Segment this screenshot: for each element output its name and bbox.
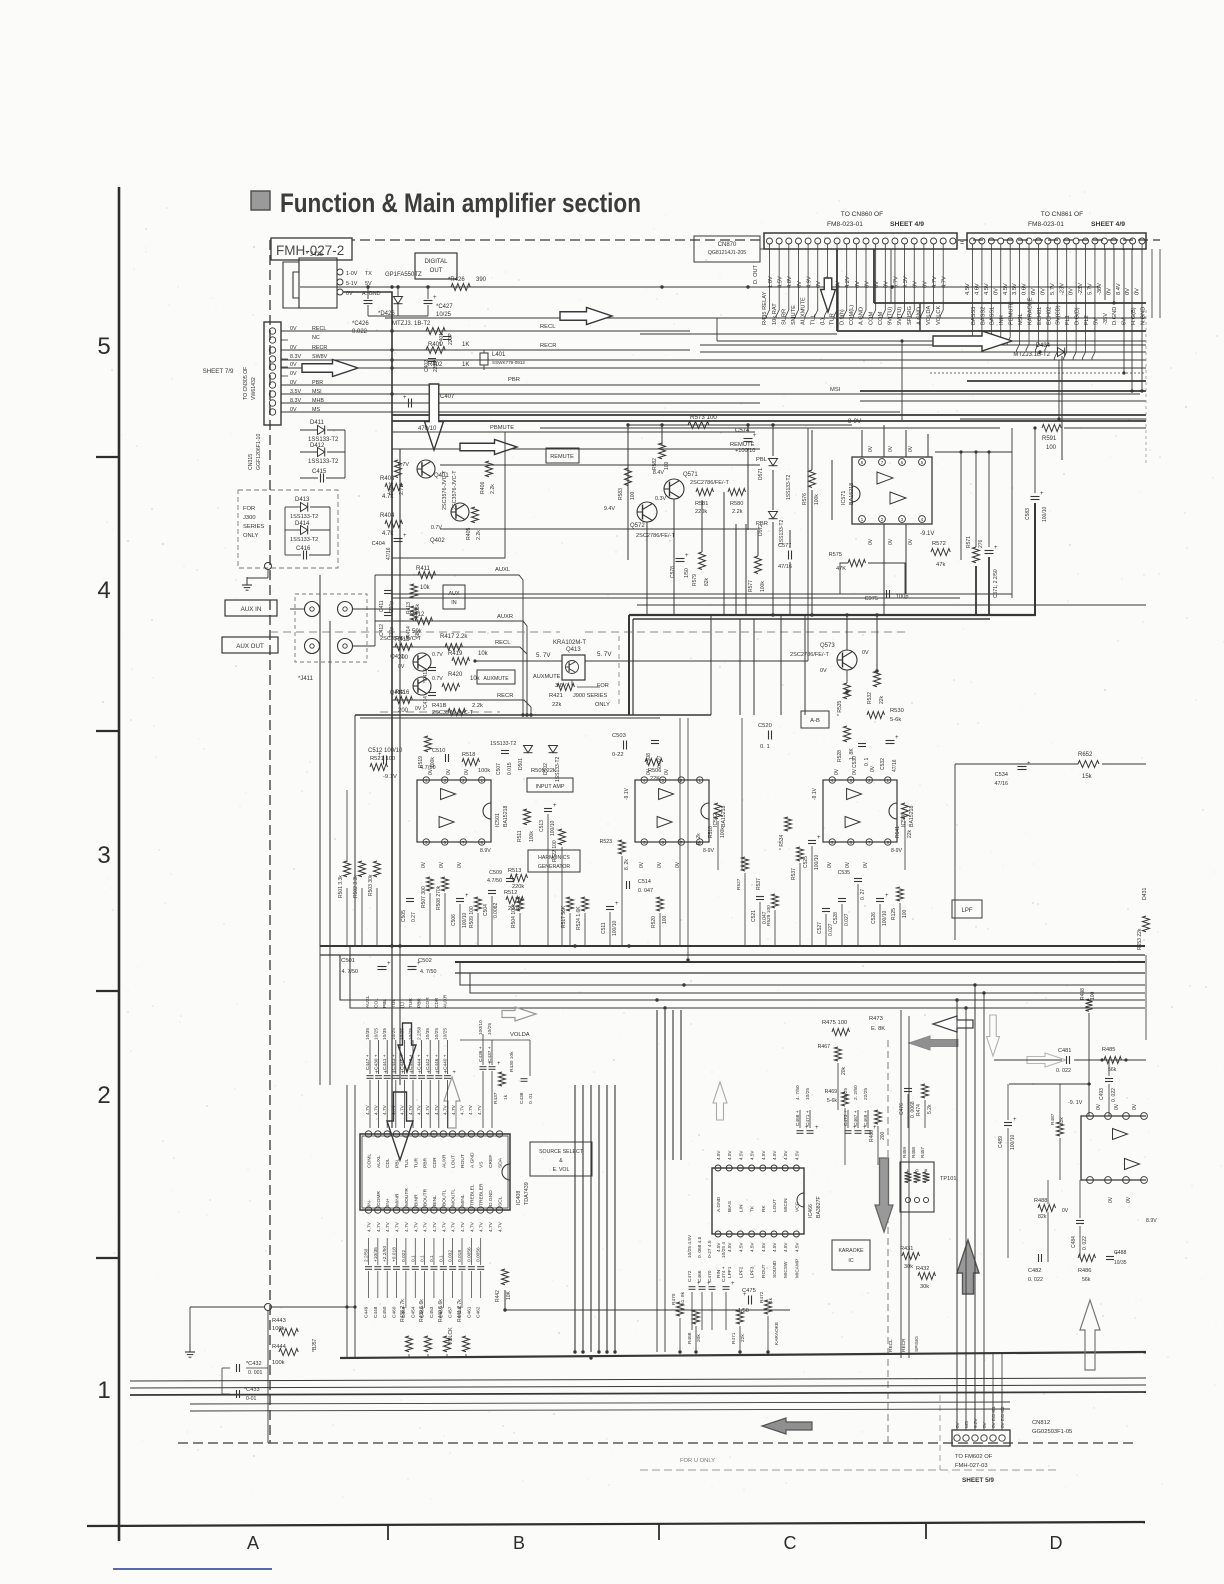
svg-text:+100/10: +100/10 <box>735 448 755 454</box>
svg-text:R511: R511 <box>517 830 523 842</box>
svg-text:-9.1V: -9.1V <box>920 531 934 537</box>
svg-text:C512 100/10: C512 100/10 <box>368 748 403 754</box>
wire trunk x392 lower <box>391 946 393 1128</box>
resistor R417 <box>445 644 463 651</box>
svg-text:9V(TU): 9V(TU) <box>897 307 903 325</box>
svg-text:0V: 0V <box>464 768 470 775</box>
arrow down C407 <box>425 384 444 450</box>
transistor Q401 <box>417 460 435 478</box>
svg-text:1SS133-T2: 1SS133-T2 <box>290 514 318 520</box>
resistor R443 <box>279 1329 298 1336</box>
svg-text:0V: 0V <box>863 861 869 868</box>
capacitor C512 <box>383 756 385 765</box>
svg-text:R440 5.6k: R440 5.6k <box>438 1299 444 1322</box>
capacitor C527 <box>822 908 830 910</box>
svg-text:RECR: RECR <box>540 343 556 349</box>
svg-text:IC526: IC526 <box>901 813 907 827</box>
capacitor C458 <box>459 1266 466 1268</box>
svg-text:D: D <box>1050 1533 1063 1553</box>
dashed rail y632 <box>270 631 560 633</box>
for J300 series dashed box <box>238 490 338 568</box>
svg-text:0. 022: 0. 022 <box>1056 1068 1071 1074</box>
svg-text:4: 4 <box>97 577 110 604</box>
svg-text:5: 5 <box>97 333 110 360</box>
svg-text:4.7V: 4.7V <box>488 1221 494 1232</box>
svg-text:C450: C450 <box>382 1306 388 1318</box>
svg-text:C504: C504 <box>483 904 489 916</box>
svg-text:RECL: RECL <box>312 326 326 332</box>
svg-text:0.032: 0.032 <box>448 1250 454 1262</box>
J426 pin 3 <box>337 289 343 295</box>
svg-text:47K: 47K <box>836 566 846 572</box>
svg-text:100k: 100k <box>272 1326 285 1332</box>
resistor R414 <box>411 606 418 620</box>
IC502 opamp A <box>659 789 674 800</box>
resistor R524 <box>582 897 589 911</box>
svg-text:COL: COL <box>374 998 380 1008</box>
connector CN861 block <box>967 233 1146 249</box>
capacitor C462 <box>477 1266 484 1268</box>
wire mid horizontals <box>320 945 1145 947</box>
capacitor C475 <box>748 1296 750 1305</box>
wire y373 dotted <box>930 372 1146 374</box>
svg-text:0V: 0V <box>870 765 876 772</box>
IC571 opamp B <box>890 492 906 504</box>
svg-text:PBMUTE: PBMUTE <box>1009 301 1015 325</box>
svg-text:FM8-023-01: FM8-023-01 <box>1028 221 1064 228</box>
IC501 pin 1 <box>479 777 485 783</box>
capacitor C447 <box>367 1075 374 1077</box>
capacitor C583 <box>1031 496 1040 498</box>
svg-text:MICAMP: MICAMP <box>794 1259 800 1278</box>
svg-text:0V: 0V <box>888 538 894 545</box>
svg-text:1K: 1K <box>462 362 469 368</box>
capacitor C532 <box>886 740 895 742</box>
svg-text:MSI: MSI <box>830 387 841 393</box>
resistor R506 <box>645 759 663 766</box>
svg-text:AUX IN: AUX IN <box>241 606 262 613</box>
CN861 pin 15 <box>1101 238 1107 244</box>
svg-text:1K: 1K <box>462 342 469 348</box>
svg-text:R523: R523 <box>600 839 613 845</box>
label LPF box <box>952 900 982 918</box>
svg-text:C466: C466 <box>697 1270 703 1282</box>
svg-text:J900 SERIES: J900 SERIES <box>573 693 607 699</box>
IC408 bottom pin 28 <box>449 1207 455 1213</box>
svg-text:+10/35: +10/35 <box>373 1247 379 1262</box>
CN861 pin 12 <box>1073 238 1079 244</box>
capacitor C521 <box>756 896 764 898</box>
svg-text:4.7V: 4.7V <box>374 1104 380 1115</box>
wire MS <box>281 411 560 413</box>
svg-text:0.3V: 0.3V <box>655 496 666 502</box>
svg-text:C430 +: C430 + <box>374 1054 380 1070</box>
wire y452 <box>935 451 1012 453</box>
resistor R507 <box>427 877 434 891</box>
svg-text:2. 2/50: 2. 2/50 <box>853 1085 859 1100</box>
svg-text:1-0V: 1-0V <box>346 271 358 277</box>
svg-text:100k: 100k <box>814 494 820 505</box>
svg-text:4.7V: 4.7V <box>376 1221 382 1232</box>
svg-text:CN870: CN870 <box>718 242 737 248</box>
IC408 top pin 8 <box>459 1131 465 1137</box>
svg-text:5-1V: 5-1V <box>346 281 358 287</box>
svg-text:-9. 1V: -9. 1V <box>1068 1100 1083 1106</box>
svg-text:R125: R125 <box>891 908 897 920</box>
resistor R501 <box>344 861 351 877</box>
resistor R511 <box>524 809 531 825</box>
transistor Q571 <box>664 479 684 499</box>
svg-text:10/25: 10/25 <box>408 1028 414 1040</box>
resistor R653 <box>1143 916 1150 932</box>
CN860 pin 15 <box>902 238 908 244</box>
ground sym left <box>267 570 269 578</box>
capacitor C528 <box>838 898 846 900</box>
svg-text:R458: R458 <box>911 1147 916 1158</box>
svg-text:&: & <box>559 1158 563 1164</box>
svg-text:8.3V: 8.3V <box>290 354 301 360</box>
svg-text:4.7V: 4.7V <box>942 276 948 288</box>
IC571 pin 6 <box>899 459 906 466</box>
svg-text:ONLY: ONLY <box>595 702 610 708</box>
left zone border axis <box>118 187 121 1541</box>
svg-text:5.7V: 5.7V <box>1088 283 1094 295</box>
svg-text:100k: 100k <box>272 1360 285 1366</box>
right opamp pin bottom 6 <box>1105 1177 1112 1184</box>
svg-text:CDR: CDR <box>434 997 440 1008</box>
svg-text:5. 7V: 5. 7V <box>536 652 551 659</box>
svg-text:+: + <box>553 803 557 809</box>
svg-text:4.7V: 4.7V <box>395 1221 401 1232</box>
svg-text:-9.1V: -9.1V <box>812 787 818 800</box>
CN315 pin 5 <box>269 364 275 370</box>
svg-text:C461: C461 <box>466 1306 472 1318</box>
wire RECL mid <box>392 647 527 715</box>
svg-text:CN812: CN812 <box>1032 1420 1050 1426</box>
svg-text:QG81214J1-205: QG81214J1-205 <box>708 250 746 256</box>
svg-text:KRA102M-T: KRA102M-T <box>553 640 586 646</box>
svg-text:4.2V: 4.2V <box>845 276 851 288</box>
IC408 top pin 11 <box>431 1131 437 1137</box>
svg-text:C441 +: C441 + <box>382 1054 388 1070</box>
svg-text:FOR: FOR <box>243 506 255 512</box>
svg-text:G: G <box>915 1168 918 1173</box>
capacitor C571 <box>985 550 994 552</box>
svg-text:SERIES: SERIES <box>243 524 264 530</box>
TP101 block <box>900 1162 934 1212</box>
svg-text:0V: 0V <box>646 768 652 775</box>
wires diode column <box>344 430 346 478</box>
IC526 pin 4 <box>829 777 835 783</box>
svg-text:R485: R485 <box>1102 1047 1115 1053</box>
svg-text:4.7V: 4.7V <box>468 1104 474 1115</box>
svg-text:BOUTL: BOUTL <box>441 1189 447 1206</box>
arrow white left <box>933 1016 973 1032</box>
svg-text:10/35: 10/35 <box>1114 1260 1127 1266</box>
svg-text:R541: R541 <box>895 826 901 838</box>
svg-text:D414: D414 <box>295 521 310 527</box>
svg-text:+0.018: +0.018 <box>392 1247 398 1262</box>
connector CN315 strip <box>264 322 281 425</box>
svg-text:AUXR: AUXR <box>442 994 448 1008</box>
svg-text:C457: C457 <box>448 1306 454 1318</box>
IC501 pin 7 <box>460 839 466 845</box>
svg-text:* J426: * J426 <box>306 252 324 258</box>
svg-text:PBL: PBL <box>756 457 768 463</box>
wire lower verticals to bus <box>408 1354 410 1358</box>
for-U-only dashed bottom line <box>640 1469 1060 1471</box>
IC526 pin 1 <box>885 777 891 783</box>
svg-text:N.GND: N.GND <box>1140 307 1146 325</box>
svg-text:R575: R575 <box>829 552 842 558</box>
resistor R503 <box>374 861 381 877</box>
svg-text:100: 100 <box>1046 445 1057 451</box>
svg-text:ONLY: ONLY <box>243 533 258 539</box>
svg-text:VOLCK: VOLCK <box>448 1327 454 1345</box>
svg-text:4.5V: 4.5V <box>750 1242 755 1252</box>
svg-text:IC571: IC571 <box>841 491 847 505</box>
IC408 bottom pin 19 <box>365 1207 371 1213</box>
IC526 pin 3 <box>848 777 854 783</box>
svg-text:TP101: TP101 <box>940 1176 956 1182</box>
bottom zone border axis <box>87 1522 1145 1526</box>
svg-text:C505: C505 <box>401 910 407 922</box>
svg-text:C493: C493 <box>1099 1088 1105 1100</box>
transistor Q402 <box>451 503 469 521</box>
svg-text:0V: 0V <box>1132 1103 1138 1110</box>
svg-text:4.5V: 4.5V <box>772 1150 777 1160</box>
svg-text:0. 27: 0. 27 <box>860 889 866 900</box>
svg-text:BASS3: BASS3 <box>971 307 977 325</box>
svg-text:4.7V: 4.7V <box>382 1104 388 1115</box>
wire bus y415 heavy <box>392 414 1146 416</box>
IC408 bottom pin 32 <box>487 1207 493 1213</box>
svg-text:8.9V: 8.9V <box>480 848 491 854</box>
svg-text:R576: R576 <box>802 493 808 505</box>
capacitor C445 <box>401 1075 408 1077</box>
resistor R486 <box>1078 1255 1096 1262</box>
svg-text:R457: R457 <box>920 1147 925 1158</box>
IC408 top pin 5 <box>487 1131 493 1137</box>
trunk bundle top corners <box>574 1084 576 1086</box>
svg-text:47/16: 47/16 <box>995 781 1009 787</box>
svg-text:C484: C484 <box>1071 1236 1077 1248</box>
svg-text:R406: R406 <box>480 481 486 494</box>
svg-text:0. 068 4.5: 0. 068 4.5 <box>697 1236 703 1258</box>
svg-text:0V: 0V <box>1108 1196 1114 1203</box>
svg-text:5V: 5V <box>1093 318 1099 325</box>
svg-text:OUT: OUT <box>430 268 443 274</box>
label box KARAOKE IC <box>832 1240 870 1270</box>
svg-text:PBR: PBR <box>423 1157 429 1168</box>
svg-text:15k: 15k <box>1082 774 1093 780</box>
svg-text:TUR: TUR <box>408 998 414 1008</box>
CN860 pin 9 <box>844 238 850 244</box>
svg-text:D413: D413 <box>295 497 310 503</box>
svg-text:0V: 0V <box>868 445 874 452</box>
svg-text:FL1: FL1 <box>1065 315 1071 325</box>
svg-text:C416: C416 <box>296 546 311 552</box>
IC466 bottom pin 13 ROUT <box>760 1231 766 1237</box>
svg-text:Q413: Q413 <box>566 647 581 653</box>
svg-text:D.GND: D.GND <box>1112 307 1118 325</box>
svg-text:=: = <box>960 240 964 247</box>
resistor R583 <box>625 468 632 486</box>
svg-text:IN-: IN- <box>367 1199 373 1206</box>
svg-text:C476: C476 <box>899 1103 905 1115</box>
resistor R403 horiz <box>385 484 403 491</box>
svg-text:-23V: -23V <box>1059 283 1065 295</box>
IC408 top pin 6 <box>478 1131 484 1137</box>
svg-text:0V: 0V <box>1125 288 1131 295</box>
svg-text:8. 2k: 8. 2k <box>624 859 630 870</box>
junction ring <box>265 563 272 570</box>
wire x717 corner <box>716 318 718 341</box>
AUX OUT label box left <box>222 637 278 653</box>
svg-text:2: 2 <box>97 1082 110 1109</box>
wire MSI <box>281 393 1140 395</box>
capacitor C440 <box>444 1075 451 1077</box>
IC466 bottom pin 15 MICSW <box>782 1231 788 1237</box>
svg-text:0V: 0V <box>1135 288 1141 295</box>
wire bus y381 heavy <box>967 380 1146 382</box>
svg-text:C440 +: C440 + <box>442 1054 448 1070</box>
svg-text:BASS1: BASS1 <box>990 307 996 325</box>
svg-text:0V: 0V <box>457 861 463 868</box>
svg-text:+: + <box>895 735 899 741</box>
svg-text:+: + <box>815 1125 819 1131</box>
capacitor C453 <box>430 1266 437 1268</box>
svg-text:0V: 0V <box>1096 1103 1102 1110</box>
IC502 pin 5 <box>641 839 647 845</box>
svg-text:0V: 0V <box>290 362 297 368</box>
IC408 top pin 17 <box>375 1131 381 1137</box>
wire CN812 riser bundle <box>956 1352 958 1392</box>
wire y1060 <box>994 1059 1062 1061</box>
svg-text:R419: R419 <box>448 651 463 657</box>
svg-text:SOURCE SELECT: SOURCE SELECT <box>539 1149 584 1155</box>
CN861 pin 11 <box>1064 238 1070 244</box>
svg-text:R431: R431 <box>900 1246 913 1252</box>
svg-text:0V: 0V <box>446 768 452 775</box>
CN812 pin 5 <box>990 1435 996 1441</box>
capacitor C416 <box>303 551 305 560</box>
IC501 pin 5 <box>423 839 429 845</box>
svg-text:RECL: RECL <box>540 324 556 330</box>
svg-text:ECH02: ECH02 <box>1046 307 1052 325</box>
svg-text:SHEET 7/9: SHEET 7/9 <box>203 368 234 375</box>
svg-text:4.5V: 4.5V <box>738 1150 743 1160</box>
IC571 block <box>852 457 932 524</box>
svg-text:R470: R470 <box>671 1293 677 1305</box>
diode D501 <box>524 746 533 753</box>
svg-text:+: + <box>615 901 619 907</box>
resistor R407 <box>395 460 402 478</box>
mid section top rail <box>360 717 660 719</box>
svg-text:C502: C502 <box>418 958 432 964</box>
svg-text:R417 2.2k: R417 2.2k <box>440 634 468 640</box>
svg-text:C448 +: C448 + <box>408 1054 414 1070</box>
svg-text:A.GND: A.GND <box>469 1152 475 1168</box>
wire y401 <box>860 400 1146 402</box>
svg-text:BASS2: BASS2 <box>980 307 986 325</box>
svg-text:4.5V: 4.5V <box>750 1150 755 1160</box>
arrow black down big <box>387 1092 413 1160</box>
svg-text:2SC3576-JVC-T: 2SC3576-JVC-T <box>380 636 422 642</box>
diode D502 <box>549 746 558 753</box>
CN861 pin 9 <box>1045 238 1051 244</box>
label box SOURCE SELECT <box>530 1142 592 1176</box>
svg-text:PBL: PBL <box>382 999 388 1008</box>
IC408 bottom pin 24 <box>412 1207 418 1213</box>
svg-text:+: + <box>387 961 391 967</box>
heavy bus y619 <box>633 618 990 620</box>
svg-text:+: + <box>753 433 757 439</box>
svg-text:R537: R537 <box>791 868 797 880</box>
capacitor C472 <box>689 1286 696 1288</box>
svg-text:0-01: 0-01 <box>246 1396 256 1402</box>
svg-text:MOUTL: MOUTL <box>451 1189 457 1206</box>
svg-text:(L): (L) <box>820 318 826 325</box>
svg-text:0V: 0V <box>862 650 869 656</box>
svg-text:BIAS: BIAS <box>727 1201 733 1212</box>
IC408 bottom pin 31 <box>478 1207 484 1213</box>
CN860 pin 17 <box>921 238 927 244</box>
svg-text:0. 1: 0. 1 <box>760 744 770 750</box>
resistor R527 <box>742 857 749 871</box>
svg-text:9.2V: 9.2V <box>973 1418 978 1428</box>
svg-text:100/10: 100/10 <box>478 1020 484 1035</box>
svg-text:4.7V: 4.7V <box>385 1221 391 1232</box>
resistor R534 <box>785 817 792 831</box>
bundle extenders to karaoke caps <box>656 1160 658 1352</box>
capacitor C481 <box>1066 1056 1068 1064</box>
junction dots on buses <box>390 285 393 288</box>
wire y594 <box>392 593 1012 595</box>
wires IC466 area <box>799 1110 801 1128</box>
jack J411 pin2 <box>338 602 353 617</box>
svg-text:AUXMUTE: AUXMUTE <box>801 297 807 325</box>
svg-text:R528: R528 <box>837 750 843 762</box>
wire trunk x330 lower <box>329 955 331 1085</box>
wire gray arrow up2 <box>1080 1300 1100 1370</box>
svg-text:TUL: TUL <box>404 1158 410 1168</box>
right opamp triangle B <box>1125 1159 1140 1170</box>
arrow CN860 area down <box>821 278 836 312</box>
inductor L401 <box>480 353 488 365</box>
svg-text:R510: R510 <box>708 826 714 838</box>
IC408 top pin 13 <box>412 1131 418 1137</box>
capacitor C501 <box>378 966 387 968</box>
svg-text:D.GND: D.GND <box>488 1190 494 1206</box>
svg-text:0-22: 0-22 <box>612 752 624 758</box>
digital transistor Q413 box <box>562 655 585 680</box>
resistor R411 <box>418 572 436 579</box>
capacitor C489 <box>1004 1122 1012 1124</box>
svg-text:E. 8K: E. 8K <box>871 1026 885 1032</box>
resistor R537 <box>797 847 804 861</box>
svg-text:47k: 47k <box>936 562 945 568</box>
IC408 top pin 9 <box>449 1131 455 1137</box>
svg-text:+: + <box>497 1061 501 1067</box>
resistor R421 <box>557 684 575 691</box>
IC571 pin 7 <box>879 459 886 466</box>
svg-text:100/10: 100/10 <box>1010 1134 1016 1150</box>
diode D411 <box>318 426 325 435</box>
wires right lower <box>1059 1084 1061 1122</box>
wire x1035 upper <box>1034 428 1036 493</box>
svg-text:AUXL: AUXL <box>376 1155 382 1168</box>
